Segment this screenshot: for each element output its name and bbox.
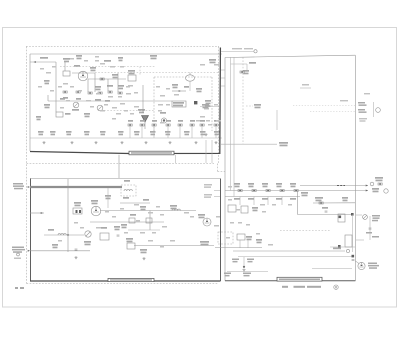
box2 label box [108, 278, 154, 281]
divider box b [241, 206, 248, 213]
label value [140, 232, 145, 234]
wire long vertical [67, 179, 69, 235]
resistor R1020 [63, 91, 67, 93]
label C1012 [76, 55, 82, 59]
page edge right [396, 28, 398, 308]
component box [73, 208, 82, 214]
label value [120, 66, 124, 68]
label value [256, 233, 260, 235]
triangle stem [144, 122, 146, 129]
label R1070 [234, 183, 240, 187]
page number 8 [20, 287, 24, 289]
label value geom [372, 236, 379, 238]
label R1034 [118, 131, 124, 135]
label value [108, 96, 113, 98]
label R1027 [95, 99, 101, 101]
ground [42, 141, 45, 144]
label faint [302, 84, 309, 86]
label C1036 [150, 131, 156, 135]
resistor R1022 [88, 92, 92, 94]
wire [128, 229, 160, 231]
label POSITION [72, 109, 79, 111]
crt feed wire 2 [233, 57, 235, 196]
wire to terminal [221, 51, 254, 53]
dotted shield line [60, 66, 155, 68]
label value [90, 106, 94, 108]
label C1024 [74, 202, 81, 206]
label R1072 value [248, 198, 254, 200]
terminal lower [346, 249, 349, 252]
component box 4 [129, 218, 135, 223]
wire to cloud [189, 73, 191, 75]
potentiometer GAIN ADJ [85, 231, 91, 237]
thermal cutout dashed box [218, 232, 233, 244]
arrow out row 0 [366, 185, 368, 187]
solder terminal low [338, 245, 341, 248]
label C1052 [152, 120, 157, 122]
ground [142, 257, 145, 260]
box2 top [30, 178, 220, 180]
label value [136, 220, 140, 222]
resistor R1090 [319, 202, 323, 204]
heater wire [355, 261, 359, 264]
caption circled number [334, 285, 338, 289]
label value [124, 232, 128, 234]
label R1051 [140, 120, 145, 122]
label value [60, 107, 64, 109]
resistor R1078 [294, 190, 298, 192]
arrow stub [41, 212, 43, 214]
wire faint heater [312, 268, 352, 270]
solder terminal heater [352, 255, 355, 258]
tube heater [358, 262, 365, 269]
label value [262, 211, 266, 213]
label value [160, 214, 164, 216]
capacitor C1037 [117, 235, 120, 236]
label R1032 [84, 131, 90, 135]
label R1053 [166, 120, 171, 122]
label GAIN ADJ [84, 241, 91, 245]
label FROM VERT SIG [13, 183, 24, 189]
terminal upper vert plate [254, 50, 257, 53]
label value [84, 60, 88, 62]
label R1091 [366, 232, 372, 234]
label R1088 [375, 177, 383, 181]
wire down right [205, 140, 207, 163]
label value [166, 88, 170, 90]
capacitor C1011 [75, 249, 78, 250]
label value [170, 240, 175, 242]
label value [38, 86, 42, 88]
wire long to right [134, 245, 214, 247]
label value [288, 204, 292, 206]
label value [128, 85, 133, 87]
label R1038 [184, 131, 190, 135]
tick wire [221, 69, 225, 71]
resistor R1023 [98, 92, 102, 94]
label value [70, 86, 74, 88]
label R1028 [65, 113, 71, 115]
crt grid bracket [373, 102, 375, 117]
resistor R1050 [128, 124, 132, 126]
chassis dashed divider [27, 163, 215, 165]
label value [206, 120, 210, 122]
crt box right [354, 55, 356, 281]
label value [238, 222, 242, 224]
label R1089 [372, 188, 379, 192]
wire main [100, 210, 196, 212]
label value [214, 225, 219, 227]
label GEOM ADJ [372, 215, 380, 221]
label R1095 [256, 239, 262, 243]
wire drop row [215, 126, 217, 138]
resistor R1021 [76, 91, 80, 93]
capacitor heater [352, 260, 355, 261]
wire below cloud [189, 81, 191, 91]
box2 heavy bus [30, 186, 122, 188]
ground [120, 141, 123, 144]
label R1080 [252, 207, 258, 211]
wire row 0 dark dashes [337, 185, 345, 187]
label +100V [44, 104, 50, 108]
label value [204, 108, 209, 110]
label value [184, 212, 189, 214]
label V1030 [91, 200, 98, 204]
resistor R1076 [280, 190, 284, 192]
wire drop row [129, 126, 131, 138]
resistor R1060 [240, 71, 244, 73]
box2 bottom [30, 280, 221, 282]
dash stub [246, 105, 253, 107]
arrow into box2 [28, 186, 30, 188]
label DELAY LINE [173, 102, 184, 106]
resistor R1056 [200, 124, 204, 126]
page edge bottom [2, 306, 397, 308]
label value [148, 240, 153, 242]
ground [70, 141, 73, 144]
label V1052 [160, 112, 166, 114]
label preamp value [14, 258, 21, 260]
label value [52, 66, 56, 68]
label C1037 [114, 226, 120, 230]
shield dashed vertical [153, 77, 155, 131]
label value [58, 86, 62, 88]
tick geometry 2 [356, 239, 364, 241]
wire row 2 [225, 196, 300, 198]
label VERTICAL AMPLIFIER INPUT [110, 279, 152, 281]
stub out 2 [214, 196, 220, 198]
label R1036 [101, 227, 107, 229]
crt label box [277, 277, 322, 281]
label R1030 [38, 131, 44, 135]
label C1110 R1110 [358, 102, 367, 106]
label out 2 [204, 194, 212, 198]
resistor R1016 [100, 78, 104, 80]
label value [158, 110, 162, 112]
ground [168, 141, 171, 144]
wire bus lower [90, 221, 164, 223]
wire row 1 [225, 190, 368, 192]
capacitor C1091 [325, 211, 328, 212]
label R1099 [333, 248, 341, 250]
label R1039 [214, 131, 220, 135]
label value [228, 186, 232, 188]
geometry wire [369, 216, 371, 240]
label C1054 [178, 120, 183, 122]
component box 3 [146, 218, 152, 223]
label value [112, 216, 116, 218]
label value [118, 96, 122, 98]
wire lower second [227, 271, 268, 273]
junction [67, 234, 69, 236]
inductor L1041 [124, 190, 132, 191]
page edge top [2, 27, 397, 29]
box2 right [220, 179, 222, 282]
label value [230, 222, 234, 224]
label value [214, 104, 218, 106]
label R1074 value [262, 198, 268, 200]
wire cathode [88, 78, 126, 80]
stub out 1 [214, 190, 220, 192]
label R1050 [128, 120, 133, 122]
label R1026 [60, 98, 65, 100]
chassis dashed divider step down [217, 164, 219, 172]
wire drop [247, 240, 249, 248]
label faint above [364, 93, 370, 94]
label R1047 C1047 [205, 100, 211, 107]
wire to sweep [221, 143, 277, 145]
label C1029 [84, 113, 90, 117]
label C1030 [50, 131, 56, 135]
label value [156, 86, 160, 88]
caption word AMPLIFIER [307, 286, 321, 288]
label R1020 value [63, 97, 68, 99]
label out 1 [204, 184, 212, 188]
resistor R1070 [238, 190, 242, 192]
label value [126, 93, 131, 95]
wire vert [107, 188, 109, 208]
label value [260, 204, 265, 206]
resistor R1025 [118, 92, 122, 94]
potentiometer DC BAL [97, 105, 103, 111]
beam arrow [179, 90, 181, 92]
wire horiz [231, 63, 248, 65]
delay line triangle [142, 116, 149, 123]
terminal r0 [370, 182, 374, 186]
resistor R1072 [252, 190, 256, 192]
terminal strip box [345, 235, 352, 247]
label value [96, 227, 101, 229]
wire vert [107, 79, 109, 91]
wire to delay line [126, 100, 172, 102]
label value [66, 100, 70, 102]
label R1096 [247, 259, 254, 263]
label C1095 [232, 259, 239, 263]
label R1010 [63, 58, 70, 62]
label +225V [254, 104, 261, 108]
label value [160, 95, 165, 97]
label value [120, 208, 124, 210]
resistor C1054 [178, 124, 182, 126]
resistor R1051 [140, 124, 144, 126]
label -150V [36, 116, 41, 120]
label VERT PLATE [244, 48, 253, 49]
potentiometer GEOM ADJ [363, 215, 368, 220]
label B104 [209, 59, 216, 63]
wire horiz mid [298, 214, 353, 216]
crt box left [224, 58, 226, 281]
label R1082 [246, 236, 252, 240]
label R1031 [66, 131, 72, 135]
resistor R1055 [190, 124, 194, 126]
wire stub [47, 95, 49, 101]
label value [134, 92, 138, 94]
label C1039 [200, 131, 206, 135]
terminal crt grid [376, 108, 381, 113]
wire drop [239, 197, 241, 206]
input attenuator box [63, 71, 70, 76]
dotted line mid [104, 110, 155, 112]
label R1018 [118, 85, 124, 89]
label C1017 [107, 85, 113, 87]
terminal V1052 [161, 118, 166, 123]
label value [228, 199, 232, 201]
label value [105, 211, 109, 213]
label value [112, 107, 117, 109]
label value [166, 104, 170, 106]
label L1048 [170, 205, 177, 209]
label R1041 [130, 214, 136, 216]
label R1070 value [234, 198, 240, 200]
label +150V [52, 244, 58, 248]
label R1015 [112, 74, 118, 78]
label R1078 [290, 183, 296, 187]
wire faint top [300, 87, 311, 89]
label grid note [359, 118, 367, 122]
inductor L1010 [58, 234, 66, 235]
label value [70, 58, 74, 60]
label value [272, 204, 276, 206]
box2 left [30, 179, 32, 282]
label R1072 [248, 183, 254, 187]
wire heater row [238, 256, 352, 258]
wire bottom row [215, 247, 262, 249]
label R1056 [200, 120, 205, 122]
resistor R1024 [108, 91, 112, 93]
label value [148, 212, 153, 214]
label C1040 L1040 [128, 70, 135, 74]
ground [242, 269, 245, 272]
tick wire [221, 85, 225, 87]
label value [196, 120, 200, 122]
label faint wire [340, 100, 348, 101]
wire vert [117, 73, 119, 92]
wire grid bus [48, 100, 126, 102]
label value [200, 116, 205, 118]
resistor R1074 [266, 190, 270, 192]
label value [100, 63, 105, 65]
resistor R1088 [378, 183, 382, 185]
wire vertical [55, 62, 57, 101]
label value [156, 206, 160, 208]
wire bottom long [30, 250, 90, 252]
ground [94, 141, 97, 144]
label value [236, 209, 240, 211]
component box 2 [100, 233, 109, 240]
label value [100, 110, 105, 112]
label C1056 [214, 120, 219, 122]
tube V1040 [203, 218, 211, 226]
bus +225V top wire [30, 53, 222, 55]
label value [160, 246, 164, 248]
wire drop row [179, 126, 181, 138]
label TO LOWER [232, 48, 242, 49]
label value [124, 110, 128, 112]
wire [330, 246, 355, 248]
label R1078 value [290, 198, 296, 200]
label value [152, 232, 156, 234]
wire stub arrow [30, 212, 44, 214]
crt feed wire 1 [230, 57, 232, 190]
chassis dashed border right [218, 47, 220, 164]
wire drop row [201, 126, 203, 138]
page number 7 [15, 287, 18, 289]
label +150V mid [322, 207, 328, 209]
label value [158, 104, 163, 106]
label C1043 [184, 86, 189, 88]
label R1076 value [276, 198, 282, 200]
tick geometry 1 [356, 214, 362, 216]
label value [78, 90, 82, 92]
tube V1030 [91, 206, 101, 216]
label value [110, 66, 115, 68]
label value [208, 124, 212, 126]
wire down [55, 101, 57, 112]
wire vert input [64, 62, 66, 71]
label interconnect [150, 55, 157, 59]
label value [46, 72, 51, 74]
label FROM INPUT [40, 57, 48, 59]
label value [80, 227, 84, 229]
ground [144, 141, 147, 144]
label R1013 C1013 [90, 67, 96, 71]
tick wire [221, 77, 225, 79]
label R1043 [172, 84, 178, 88]
label R1090 [315, 197, 323, 201]
caption word CRT [282, 286, 288, 288]
dotted line upper [95, 72, 218, 74]
label R1076 [276, 183, 282, 187]
label value [174, 94, 179, 96]
wire left bus [44, 234, 84, 236]
crt box bottom [225, 280, 355, 282]
junction dark [243, 266, 245, 268]
label V1040 [198, 214, 205, 218]
label value [96, 93, 100, 95]
wire faint [200, 106, 219, 108]
chassis dashed border bottom [27, 283, 219, 285]
wire drop [239, 240, 241, 248]
label C1060 [243, 70, 249, 74]
crt dashed feed [242, 57, 244, 144]
label C1090 [342, 197, 348, 201]
wire long lower [233, 250, 345, 252]
label C1 R1 [44, 80, 50, 84]
label C1057 [140, 249, 147, 253]
input arrow [34, 61, 36, 63]
wire corner [246, 64, 248, 71]
label +300V [301, 192, 308, 196]
